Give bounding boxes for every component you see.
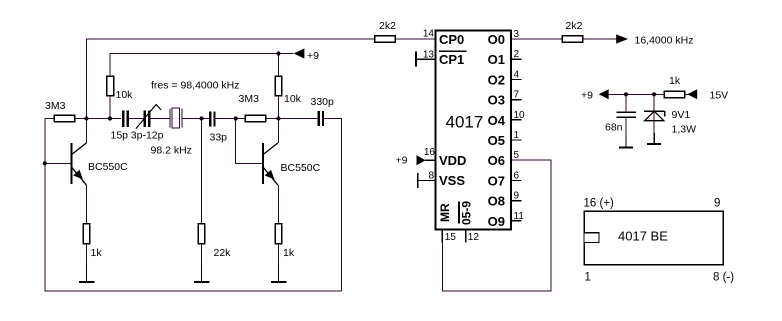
wire O6 pin5 to MR pin15 loop xyxy=(442,160,551,291)
output arrow 16,4000 kHz xyxy=(616,34,628,43)
wire emitter Q2 to 1k xyxy=(278,185,280,224)
svg-text:33p: 33p xyxy=(210,132,228,144)
ground bar 68n xyxy=(619,136,633,148)
pin 9 stub xyxy=(511,200,522,202)
svg-text:3M3: 3M3 xyxy=(239,93,260,105)
node G base Q1 junction xyxy=(43,161,47,165)
wire +9 rail to left 10k top xyxy=(110,54,294,119)
svg-text:13: 13 xyxy=(423,50,435,61)
wire top feedback rail collector Q1 to pin14 xyxy=(87,39,436,143)
svg-text:15: 15 xyxy=(445,232,457,243)
pin 4 stub xyxy=(511,78,522,80)
svg-text:O5: O5 xyxy=(488,133,505,148)
svg-text:16,4000 kHz: 16,4000 kHz xyxy=(635,35,694,47)
svg-text:1: 1 xyxy=(585,272,591,284)
ground bar Q1 emitter xyxy=(79,264,95,282)
node F 10k right top junction xyxy=(276,51,280,55)
svg-text:12: 12 xyxy=(468,232,480,243)
transistor Q1 BC550C xyxy=(72,143,87,185)
svg-text:1: 1 xyxy=(514,130,520,141)
svg-text:2k2: 2k2 xyxy=(566,20,583,32)
svg-text:11: 11 xyxy=(514,211,525,222)
resistor R 3M3 right xyxy=(245,115,266,122)
power flag +9 top left xyxy=(294,48,305,58)
pin 2 stub xyxy=(511,58,522,60)
svg-text:9V1: 9V1 xyxy=(672,109,691,121)
wire main oscillator rail segment 1 xyxy=(45,118,121,120)
wire right 10k vertical xyxy=(278,54,280,119)
wire rail segment crystal to 33p xyxy=(182,118,209,120)
svg-text:6: 6 xyxy=(514,170,520,181)
svg-text:2k2: 2k2 xyxy=(379,20,396,32)
wire O0 pin3 to output arrow xyxy=(511,38,617,40)
svg-text:16 (+): 16 (+) xyxy=(584,198,615,210)
svg-text:O9: O9 xyxy=(488,214,505,229)
zener diode D1 9V1 xyxy=(644,111,664,121)
wire rail segment trimmer to crystal xyxy=(151,118,170,120)
svg-text:10k: 10k xyxy=(116,89,134,101)
transistor Q2 BC550C xyxy=(263,143,278,185)
capacitor C 33p xyxy=(210,112,214,127)
trimmer capacitor 3p-12p xyxy=(136,104,161,128)
ground bar Q2 emitter xyxy=(271,264,287,282)
svg-text:O0: O0 xyxy=(488,32,505,47)
power flag +9 VDD pin16 xyxy=(417,155,436,165)
svg-text:16: 16 xyxy=(424,147,436,158)
svg-text:O7: O7 xyxy=(488,173,505,188)
DIP package outline 4017BE xyxy=(584,211,723,264)
svg-text:8 (-): 8 (-) xyxy=(713,272,734,284)
DIP package notch xyxy=(584,233,599,243)
pin 13 stub with ground bar CP1 xyxy=(416,52,436,67)
ground bar 22k xyxy=(194,264,210,282)
pin 1 stub xyxy=(511,139,522,141)
svg-text:68n: 68n xyxy=(605,122,623,134)
resistor R 10k right xyxy=(275,76,282,96)
svg-text:10k: 10k xyxy=(284,93,302,105)
svg-text:CP0: CP0 xyxy=(439,32,464,47)
svg-text:+9: +9 xyxy=(307,50,319,62)
label O5-9 rotated with bar xyxy=(459,201,474,225)
svg-text:5: 5 xyxy=(514,150,520,161)
crystal X1 xyxy=(170,108,182,128)
svg-text:1k: 1k xyxy=(283,247,295,259)
wire emitter Q1 to 1k xyxy=(86,185,88,224)
svg-text:3: 3 xyxy=(514,29,520,40)
svg-text:+9: +9 xyxy=(396,155,408,167)
svg-text:4017: 4017 xyxy=(446,113,484,132)
svg-text:+9: +9 xyxy=(581,90,593,102)
svg-text:14: 14 xyxy=(423,29,435,40)
wire 68n bottom to ground xyxy=(625,118,627,137)
svg-text:BC550C: BC550C xyxy=(88,161,128,173)
pin 6 stub xyxy=(511,179,522,181)
svg-text:1k: 1k xyxy=(91,247,103,259)
pin 11 stub xyxy=(511,220,522,222)
svg-text:O4: O4 xyxy=(488,113,506,128)
pin 12 stub xyxy=(465,230,467,243)
svg-text:8: 8 xyxy=(428,171,434,182)
pin 8 stub with ground bar VSS xyxy=(418,173,436,188)
svg-text:VDD: VDD xyxy=(439,153,466,168)
wire collector Q2 xyxy=(278,119,280,144)
wire +9 power segment xyxy=(607,93,667,95)
svg-text:7: 7 xyxy=(514,90,520,101)
node A collector Q1 junction xyxy=(84,116,88,120)
svg-text:O3: O3 xyxy=(488,93,505,108)
svg-text:22k: 22k xyxy=(214,247,232,259)
wire 22k bottom xyxy=(201,244,203,264)
svg-text:3p-12p: 3p-12p xyxy=(131,130,164,142)
resistor R 22k xyxy=(198,224,205,244)
node E collector Q2 junction xyxy=(276,116,280,120)
op-amp U1 4017 IC body xyxy=(436,31,512,230)
svg-text:4017 BE: 4017 BE xyxy=(618,229,668,244)
svg-text:3M3: 3M3 xyxy=(45,100,66,112)
node C crystal 33p 22k junction xyxy=(199,116,203,120)
node H 68n junction xyxy=(624,92,628,96)
resistor R 1k emitter Q1 xyxy=(83,224,90,244)
svg-text:330p: 330p xyxy=(311,96,335,108)
node D base Q2 junction xyxy=(234,116,238,120)
resistor R 2k2 output xyxy=(562,36,583,43)
resistor R 1k emitter Q2 xyxy=(275,224,282,244)
wire 22k top xyxy=(201,119,203,225)
node I zener junction xyxy=(652,92,656,96)
power flag 15V xyxy=(687,89,697,99)
svg-text:9: 9 xyxy=(714,198,720,210)
pin 15 stub xyxy=(441,230,443,243)
svg-text:9: 9 xyxy=(514,191,520,202)
label CP1 with overline xyxy=(439,51,467,67)
svg-text:4: 4 xyxy=(514,69,520,80)
ground bar zener xyxy=(647,133,661,144)
wire base Q2 xyxy=(236,119,263,164)
wire 1k power to 15V flag xyxy=(683,93,689,95)
svg-text:15V: 15V xyxy=(710,90,729,102)
wire base Q1 xyxy=(45,162,72,164)
wire zener vertical xyxy=(653,94,655,133)
wire 1k to ground xyxy=(86,244,88,264)
wire rail segment between 15p and trimmer xyxy=(129,118,144,120)
svg-text:O6: O6 xyxy=(488,153,505,168)
resistor R 10k left xyxy=(107,76,114,96)
capacitor C 15p xyxy=(123,111,128,127)
wire 68n top xyxy=(625,94,627,112)
svg-text:1,3W: 1,3W xyxy=(672,124,697,136)
wire bottom feedback rail xyxy=(45,119,342,292)
svg-text:fres = 98,4000 kHz: fres = 98,4000 kHz xyxy=(151,80,239,92)
svg-text:VSS: VSS xyxy=(439,173,465,188)
svg-text:1k: 1k xyxy=(669,75,681,87)
pin 7 stub xyxy=(511,99,522,101)
svg-text:O2: O2 xyxy=(488,72,505,87)
svg-text:O8: O8 xyxy=(488,194,505,209)
svg-text:BC550C: BC550C xyxy=(281,162,321,174)
svg-text:CP1: CP1 xyxy=(439,52,464,67)
svg-text:98.2 kHz: 98.2 kHz xyxy=(151,145,192,157)
svg-text:05-9: 05-9 xyxy=(460,201,474,225)
resistor R 2k2 top xyxy=(375,36,396,43)
resistor R 1k power xyxy=(664,91,685,98)
capacitor C 330p xyxy=(319,111,323,126)
svg-text:2: 2 xyxy=(514,49,520,60)
pin 10 stub xyxy=(511,119,522,121)
svg-text:MR: MR xyxy=(438,203,452,222)
capacitor C 68n xyxy=(617,112,637,117)
wire rail segment after 330p with corner down xyxy=(324,119,342,292)
svg-text:10: 10 xyxy=(514,110,526,121)
svg-text:O1: O1 xyxy=(488,52,505,67)
node B 10k left junction xyxy=(108,116,112,120)
wire 1k2 bottom xyxy=(278,244,280,264)
power flag +9 right xyxy=(599,89,609,99)
resistor R 3M3 left xyxy=(54,115,75,122)
svg-text:15p: 15p xyxy=(111,130,129,142)
wire rail segment 33p to 330p xyxy=(216,118,318,120)
